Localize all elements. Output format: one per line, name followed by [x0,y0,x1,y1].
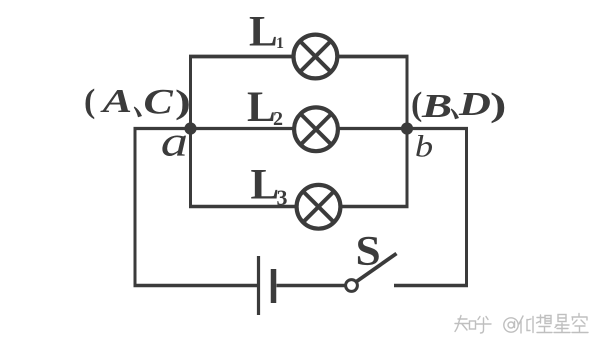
svg-text:): ) [490,86,506,124]
svg-text:L: L [249,9,278,56]
svg-text:): ) [175,83,191,122]
svg-text:B: B [421,86,452,124]
svg-text:b: b [415,130,433,164]
svg-text:A: A [99,82,132,120]
svg-text:3: 3 [277,185,288,210]
svg-text:2: 2 [273,108,283,130]
svg-text:(: ( [84,83,95,120]
svg-text:L: L [251,162,280,209]
svg-text:(: ( [411,86,422,123]
svg-text:S: S [356,228,381,274]
svg-text:L: L [247,84,276,131]
svg-text:1: 1 [276,35,284,52]
svg-text:D: D [458,85,491,123]
svg-text:C: C [144,81,175,121]
svg-text:a: a [161,118,188,165]
